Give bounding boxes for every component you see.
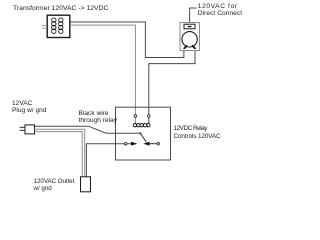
120VAC direct connect outlet: right slot [191,45,196,49]
wire: black wire from plug through relay to switch pivot [35,126,141,133]
wire: relay switched output, left contact lead out of box down to outlet [86,144,131,177]
wire: plug wire 3 (gnd) down to outlet [35,132,83,177]
wire: transformer 120VAC input stub 1 [42,25,48,27]
relay right contact terminal dot [157,143,159,145]
label: 12VAC Plug w/ gnd [12,100,46,114]
relay switch arm [140,133,146,142]
label: Black wire through relay [79,111,118,124]
12VAC plug body [25,125,35,134]
transformer T1 box [47,15,70,37]
120VAC outlet box [81,177,91,192]
wire: relay right contact lead [150,143,158,145]
relay coil terminal dot left [134,115,137,118]
label: 120VAC for Direct Connect [198,4,238,11]
wire: transformer output 1 (dark) to direct-connect outlet [70,22,184,58]
wire: transformer 120VAC input stub 2 [42,27,48,29]
label: 120VAC Outlet w/ gnd [34,179,75,192]
12VAC plug prong 2 [20,129,26,131]
120VAC direct connect outlet: outer box [180,23,200,51]
120VAC direct connect outlet: face circle [182,32,197,47]
relay right contact arrow (points left) [143,142,149,146]
label: 12VDC Relay Controls 120VAC [174,126,208,133]
relay left contact arrow (points right) [131,142,137,146]
120VAC direct connect outlet: leader line [190,8,197,24]
relay left contact terminal dot [124,142,127,145]
12VAC plug prong 1 [20,126,26,128]
wire: plug wire 2 down to outlet [35,129,85,177]
120VAC direct connect outlet: left slot [183,45,188,49]
transformer T1 primary coil [52,18,56,34]
relay coil terminal dot right [148,115,151,118]
120VAC direct connect outlet: top small rect [184,24,195,29]
relay switch pivot dot [139,132,141,134]
wire: transformer output 2 (gray) down to relay coil [70,25,135,124]
relay box [116,107,171,160]
label: Transformer 120VAC -> 12VDC [13,6,108,13]
relay coil loops [133,124,150,127]
wire: direct-connect outlet second lead to relay coil [149,51,195,124]
transformer T1 secondary coil [59,18,63,34]
120VAC direct connect outlet: dash inside small rect [188,26,192,27]
